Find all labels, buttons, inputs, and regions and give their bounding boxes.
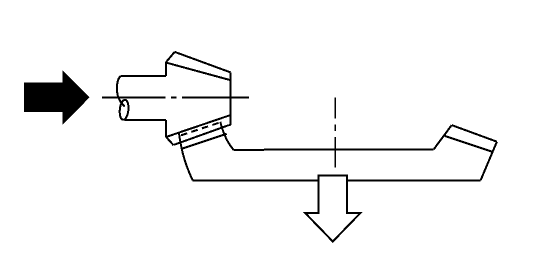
lever right end inner edge [445, 136, 493, 152]
lever bent-end right side edge [220, 122, 233, 150]
cone top-left chamfer [166, 52, 175, 62]
lever right end top edge [452, 125, 497, 142]
cone top rim edge [167, 63, 231, 80]
lever bent-end hidden edge (dashed) [181, 123, 220, 136]
horizontal centerline (shaft axis, dash-dot) [102, 97, 249, 99]
vertical centerline (output axis, dash-dot) [334, 98, 336, 168]
lever top line [234, 149, 434, 151]
lever bottom line [193, 179, 481, 181]
shaft cylinder end-face ellipse [119, 99, 130, 120]
cone bottom rim edge [174, 125, 228, 145]
shaft cylinder top line [121, 75, 166, 77]
input force arrow (solid black, pointing right) [24, 70, 90, 125]
shaft cylinder bottom line [124, 119, 166, 121]
lever right bend slant [434, 125, 452, 149]
cone right face vertical [228, 72, 230, 125]
lever right end face [481, 142, 497, 181]
cone top outer edge [175, 52, 231, 73]
lever bent-end left side edge [179, 134, 193, 181]
cone left face lower vertical [165, 120, 167, 137]
shaft cylinder rounded left end [117, 76, 125, 106]
lever bent-end lower edge [181, 134, 226, 149]
cone bottom outer edge [166, 115, 230, 137]
cone bottom-left chamfer [166, 137, 174, 146]
cone left face upper vertical [165, 62, 167, 76]
output force arrow (hollow, pointing down) [305, 175, 360, 241]
